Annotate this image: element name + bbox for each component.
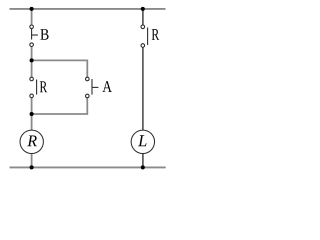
- wire: top rail down to contact B: [31, 9, 33, 25]
- label A: [102, 81, 112, 92]
- wire: top rail down to contact R right: [142, 9, 144, 25]
- junction dot: bottom rail / coil R: [30, 165, 34, 169]
- pushbutton A (make contact): [86, 77, 99, 98]
- wire: coil R down to bottom rail: [31, 154, 33, 168]
- wire: contact R left down to node 2: [31, 98, 33, 114]
- relay contact R (right, make contact): [141, 25, 148, 47]
- wire: contact R right down to lamp L: [142, 48, 144, 131]
- junction dot: top rail / branch B: [30, 7, 34, 11]
- bottom supply rail: [10, 166, 166, 168]
- label R of right contact: [152, 29, 160, 40]
- top supply rail: [10, 8, 166, 10]
- wire: node 1 branch right and down to contact A: [32, 60, 88, 77]
- pushbutton B (break contact): [30, 25, 38, 47]
- label L inside lamp (italic): [138, 135, 147, 146]
- relay coil R: [20, 130, 43, 153]
- junction dot: bottom rail / lamp L: [141, 165, 145, 169]
- label B: [40, 29, 48, 40]
- label R of left contact: [40, 81, 47, 92]
- wire: lamp L down to bottom rail: [142, 154, 144, 168]
- node 2 junction dot: [30, 112, 34, 116]
- junction dot: top rail / contact R right: [141, 7, 145, 11]
- wire: node 1 down to contact R left: [31, 60, 33, 77]
- wire: contact B down to node 1: [31, 47, 33, 61]
- wire: contact A down and left to node 2: [32, 98, 88, 114]
- lamp L: [131, 130, 154, 153]
- wire: node 2 down to coil R: [31, 114, 33, 130]
- node 1 junction dot: [30, 58, 34, 62]
- label R inside coil (italic): [27, 136, 36, 147]
- relay contact R (left, make contact): [30, 77, 37, 98]
